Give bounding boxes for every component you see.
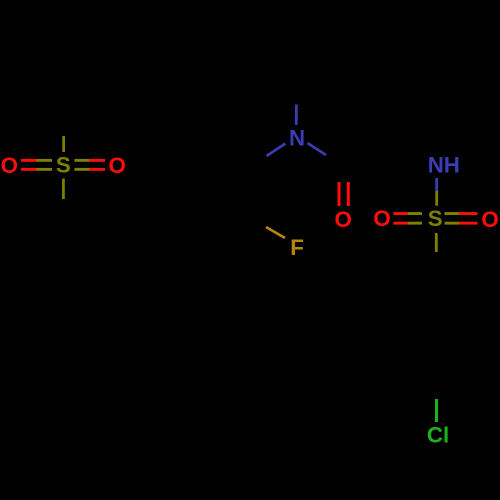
bond S-C(aryl) down stub (S half, olive) [435, 233, 438, 252]
double bond S=O right pair, S half (olive) [445, 212, 460, 224]
svg-text:O: O [109, 153, 126, 178]
double bond S=O right pair, O half (red) [90, 159, 105, 171]
svg-text:S: S [428, 206, 443, 231]
svg-text:Cl: Cl [427, 422, 449, 447]
svg-text:O: O [1, 153, 18, 178]
bond C-F stub (F half, gold) [266, 227, 285, 238]
bond C-Cl stub (Cl half, green) [435, 399, 438, 422]
bond N-C(=O) down-right stub (N half, blue) [308, 143, 327, 155]
svg-text:O: O [373, 206, 390, 231]
bond N-S vertical, N half (blue) [435, 178, 438, 191]
svg-text:S: S [56, 153, 71, 178]
double bond S=O right pair, O half (red) [459, 212, 478, 224]
double bond O=S left pair, O half (red) [21, 159, 37, 171]
svg-text:NH: NH [428, 153, 460, 178]
bond S-CH3 up stub (S half, olive) [62, 136, 65, 152]
double bond S=O right pair, S half (olive) [74, 159, 89, 171]
double bond O=S left pair, O half (red) [393, 212, 407, 224]
bond S-CH2 down stub (S half, olive) [62, 179, 65, 200]
svg-text:O: O [335, 207, 352, 232]
bond N-S vertical, S half (olive) [435, 191, 438, 206]
double bond C=O carbonyl, O halves (red, two vertical lines) [338, 182, 350, 206]
double bond O=S left pair, S half (olive) [408, 212, 422, 224]
double bond O=S left pair, S half (olive) [37, 159, 53, 171]
svg-text:F: F [290, 235, 304, 260]
bond N-CH3 up stub (N half, blue) [295, 105, 298, 126]
svg-text:N: N [289, 126, 305, 151]
svg-text:O: O [481, 207, 498, 232]
bond N-C(aryl) down-left stub (N half, blue) [267, 144, 286, 157]
